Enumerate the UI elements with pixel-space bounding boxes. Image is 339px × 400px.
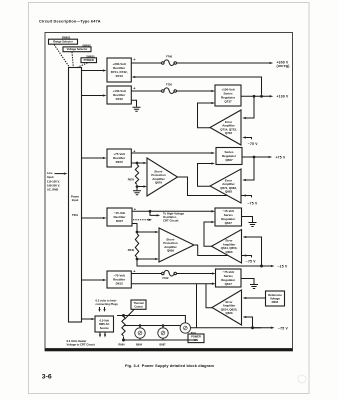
- svg-text:F750: F750: [166, 83, 172, 87]
- svg-text:CRT Circuit: CRT Circuit: [163, 219, 178, 223]
- svg-text:D612: D612: [116, 282, 124, 286]
- resistor R649: [135, 234, 138, 258]
- node +100V b: [260, 95, 263, 98]
- -75V rail: [191, 327, 262, 329]
- wire D612 lower to Q617: [131, 283, 212, 285]
- short-protection amplifier U4 Q659: [159, 228, 194, 262]
- svg-text:Q733: Q733: [225, 131, 232, 135]
- lamp B684: [135, 328, 145, 338]
- node R684 top: [122, 314, 125, 317]
- svg-text:6.3 Volts Heater: 6.3 Volts Heater: [67, 339, 87, 343]
- rectifier D647: [107, 208, 132, 226]
- wire T601 to D612: [82, 279, 104, 281]
- svg-text:D647: D647: [116, 219, 124, 223]
- wire T601 to D672: [82, 157, 104, 159]
- heater wire top: [117, 316, 185, 323]
- series regulator Q647: [215, 208, 242, 226]
- bottom common wire: [124, 337, 197, 341]
- svg-text:6.3 volts to Inter-: 6.3 volts to Inter-: [96, 299, 118, 303]
- svg-text:110-126 V,: 110-126 V,: [47, 179, 60, 183]
- svg-text:D664: D664: [272, 300, 279, 304]
- ground G1: [133, 107, 141, 111]
- +300V output arrow: [270, 62, 274, 64]
- svg-text:connecting Plugs: connecting Plugs: [96, 302, 119, 306]
- error amplifier U6 Q614 Q623 Q633: [212, 290, 242, 325]
- wire R649 bottom to U4: [137, 258, 156, 260]
- wire F750 to Q737: [176, 90, 211, 92]
- svg-text:D672: D672: [116, 160, 124, 164]
- dashed link SW601 to T601: [78, 63, 88, 68]
- svg-text:Fig. 3-4 Power Supply detaile: Fig. 3-4 Power Supply detailed block dia…: [125, 364, 214, 368]
- dashed link SW603 to T601: [54, 44, 70, 67]
- -15V output arrow: [262, 265, 272, 267]
- node lamp B687: [162, 324, 165, 327]
- rectifier D672: [107, 149, 131, 167]
- wire R649 to -15V rail: [137, 259, 261, 266]
- rectifier D741 D742 D743: [107, 58, 131, 82]
- error amplifier U1 Q714 Q723 Q733: [210, 110, 241, 145]
- wire D741 to fuse F748: [131, 62, 161, 64]
- fuse F748: [162, 62, 165, 65]
- svg-text:POWER: POWER: [84, 58, 94, 62]
- wire R649 top to U4: [137, 231, 156, 233]
- node bottom: [122, 339, 125, 342]
- node R649 bottom: [136, 258, 139, 261]
- rectifier D732: [107, 86, 131, 104]
- svg-text:198-250 V,: 198-250 V,: [47, 183, 60, 187]
- ground G3: [249, 223, 257, 227]
- node +75V: [253, 156, 256, 159]
- svg-text:Q633: Q633: [225, 311, 232, 315]
- svg-text:Thermal: Thermal: [133, 301, 143, 305]
- svg-text:−75 V: −75 V: [246, 260, 256, 264]
- feedback -15V to U5: [245, 237, 262, 266]
- svg-text:D732: D732: [116, 97, 124, 101]
- wire Q647 to ground: [242, 217, 253, 223]
- svg-text:R679: R679: [128, 177, 135, 181]
- wire D664 to U6: [245, 297, 266, 299]
- wire U1 output to Q737: [198, 103, 212, 128]
- svg-text:Q647: Q647: [225, 221, 233, 225]
- svg-text:Q663: Q663: [225, 250, 232, 254]
- wire D647 to Q647: [132, 210, 212, 212]
- wire D612 to fuse F612: [131, 273, 161, 275]
- svg-text:−75 V: −75 V: [278, 326, 288, 330]
- svg-text:Voltage to CRT Circuit: Voltage to CRT Circuit: [67, 343, 95, 347]
- lamp B684 drop: [139, 326, 141, 328]
- svg-text:Power: Power: [71, 195, 79, 199]
- svg-text:R684: R684: [119, 343, 126, 346]
- 6.3-Volt RMS AC source: [95, 316, 114, 332]
- ground G2: [133, 191, 141, 195]
- dashed wire to CRT circuit: [133, 219, 149, 221]
- error amplifier U3 Q674 Q683 Q693: [210, 169, 241, 203]
- lamp tap wire: [124, 325, 181, 327]
- node R679 bottom: [136, 185, 139, 188]
- svg-text:D743: D743: [116, 74, 124, 78]
- wire D612 branch down to -75V rail: [196, 284, 198, 328]
- short-protection amplifier U2 Q679: [147, 158, 178, 196]
- lamp B687: [158, 328, 168, 338]
- switch SW603 Range Selector: [49, 39, 78, 44]
- wire R679 bottom to U2: [137, 186, 144, 188]
- svg-text:6.3-Volt: 6.3-Volt: [99, 318, 109, 322]
- svg-text:+75 V: +75 V: [276, 155, 286, 159]
- feedback +100V to U1: [244, 96, 254, 118]
- svg-text:(unreg): (unreg): [277, 64, 290, 68]
- faint stamp mark: [298, 375, 306, 383]
- ground stub D732: [131, 100, 136, 107]
- diagram frame: [45, 33, 293, 349]
- svg-text:Q693: Q693: [225, 190, 232, 194]
- svg-text:Input: Input: [72, 198, 79, 202]
- POWER ON box: [188, 334, 204, 343]
- wire U6 output riser to Q617: [206, 284, 212, 308]
- svg-text:−75 V: −75 V: [248, 142, 258, 146]
- svg-text:R649: R649: [128, 248, 135, 252]
- ground G4: [250, 285, 258, 289]
- svg-text:Q737: Q737: [224, 99, 232, 103]
- frame bottom heavy rule: [45, 349, 293, 352]
- resistor R684: [122, 317, 125, 337]
- svg-text:T601: T601: [72, 213, 79, 217]
- wire thermal cutout to heater line: [125, 310, 135, 320]
- svg-text:−15 V: −15 V: [278, 265, 288, 269]
- svg-text:Range Selector: Range Selector: [53, 40, 73, 44]
- svg-text:AC, RMS: AC, RMS: [47, 187, 59, 191]
- plug arrow b: [104, 307, 106, 310]
- lamp B687 drop: [162, 326, 164, 328]
- wire F612 to Q617: [176, 273, 212, 275]
- svg-text:Voltage Selector: Voltage Selector: [67, 47, 88, 51]
- series regulator Q617: [216, 269, 242, 287]
- svg-text:RMS AC: RMS AC: [99, 322, 110, 326]
- wire U4 output to -75V: [194, 245, 252, 257]
- svg-text:F612: F612: [163, 276, 169, 280]
- heater arrow b: [104, 333, 106, 336]
- svg-text:Q679: Q679: [155, 181, 162, 185]
- ground stub R679: [136, 187, 138, 191]
- wire D672 to Q697: [131, 152, 212, 154]
- wire U3 output to Q697: [198, 164, 212, 187]
- thermal cutout: [131, 300, 146, 309]
- svg-text:3-6: 3-6: [42, 373, 52, 380]
- feedback +75V to U3: [244, 157, 254, 180]
- svg-text:B687: B687: [160, 343, 167, 346]
- wire Q697 output: [242, 156, 269, 158]
- switch SW601 POWER: [81, 58, 97, 63]
- return wire +100V riser to D741: [135, 77, 262, 95]
- wire T601 to D741: [82, 70, 104, 72]
- branch to HV oscillator: [150, 211, 157, 215]
- node lamp B684: [139, 324, 142, 327]
- wire Q617 to ground: [241, 279, 254, 285]
- svg-text:Cutout: Cutout: [134, 304, 142, 308]
- series regulator Q737: [215, 85, 241, 106]
- rectifier D612: [107, 271, 131, 288]
- switch SW602 Voltage Selector: [63, 47, 91, 52]
- wire D732 to fuse F750: [131, 90, 161, 92]
- wire F748 to +300V output: [176, 62, 269, 64]
- -75V stub U1: [244, 138, 251, 140]
- wire D672 lower to U2: [131, 162, 144, 164]
- svg-text:F748: F748: [166, 55, 172, 59]
- wire D647 lower to R649: [132, 224, 137, 233]
- feedback -75V to U6: [245, 317, 253, 328]
- wire U5 output to Q647: [204, 222, 212, 246]
- transformer T601: [69, 68, 82, 323]
- node HV branch: [149, 210, 152, 213]
- svg-text:Circuit Description—Type 647A: Circuit Description—Type 647A: [39, 19, 101, 23]
- svg-text:+100 V: +100 V: [277, 95, 290, 99]
- wire T601 to D732: [82, 95, 104, 97]
- wire U2 output to -75V: [178, 177, 252, 197]
- fuse F612: [162, 272, 165, 275]
- svg-text:Source: Source: [100, 326, 110, 330]
- svg-text:Q697: Q697: [225, 158, 233, 162]
- fuse F750: [162, 90, 165, 93]
- wire T601 to 6.3V source: [82, 318, 92, 320]
- svg-text:Q617: Q617: [225, 282, 233, 286]
- node -15V: [260, 265, 263, 268]
- plug arrow a: [99, 307, 101, 310]
- line input arrow: [55, 173, 65, 175]
- svg-text:B684: B684: [136, 343, 143, 346]
- svg-text:Line: Line: [47, 171, 53, 175]
- node R649 top: [136, 231, 139, 234]
- lamp B601 power-on: [180, 323, 190, 333]
- reference voltage D664: [266, 291, 285, 306]
- heater arrow a: [99, 333, 101, 336]
- node -75V: [251, 326, 254, 329]
- svg-text:Q659: Q659: [167, 249, 174, 253]
- svg-text:−75 V: −75 V: [248, 201, 258, 205]
- svg-text:POWER: POWER: [191, 335, 201, 339]
- node +100V a: [253, 95, 256, 98]
- -75V output arrow: [253, 327, 272, 329]
- resistor R679: [135, 165, 138, 185]
- error amplifier U5 Q644 Q653 Q663: [212, 230, 242, 264]
- dashed link SW602 to T601: [72, 52, 73, 67]
- svg-text:Input: Input: [47, 175, 54, 179]
- series regulator Q697: [216, 148, 242, 165]
- wire Q737 output: [241, 95, 270, 97]
- wire T601 to D647: [82, 217, 104, 219]
- node R679 top: [136, 162, 139, 165]
